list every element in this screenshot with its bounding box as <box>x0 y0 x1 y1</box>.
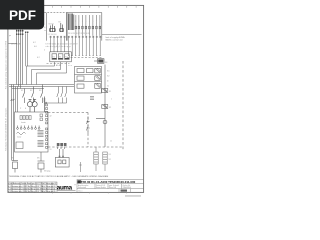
svg-text:th1: th1 <box>107 70 110 73</box>
svg-text:pe: pe <box>9 35 11 37</box>
supply limit line <box>102 34 142 36</box>
wire labels L1 L2 L3 N and 6-20 <box>11 42 77 59</box>
svg-text:8: 8 <box>99 21 100 23</box>
svg-text:4.1: 4.1 <box>44 27 47 29</box>
mechanical linkage line <box>45 102 67 104</box>
svg-text:B1: B1 <box>59 22 61 24</box>
svg-text:S1: S1 <box>21 90 23 92</box>
control unit enclosure A1 <box>15 112 48 152</box>
resistor R2 <box>17 133 26 135</box>
frame grid ticks top <box>52 5 136 7</box>
thermal fuse F1 <box>102 89 108 93</box>
wire to motor M1 <box>104 65 106 148</box>
svg-text:6: 6 <box>92 21 93 23</box>
svg-text:Schaltplan Stellantrieb AUMA S: Schaltplan Stellantrieb AUMA SA 07.1 Umd… <box>4 107 7 151</box>
svg-text:a Ind Änderung Datum Name ger: a Ind Änderung Datum Name ger 4.02 TPA b… <box>8 182 56 185</box>
svg-text:4.6: 4.6 <box>34 46 37 48</box>
PDF badge <box>0 0 44 30</box>
left margin vertical text <box>4 40 7 151</box>
blinker transmitter P1 P2 <box>27 97 45 113</box>
svg-text:23 24 25 26 27 28 29 30 31: 23 24 25 26 27 28 29 30 31 <box>68 33 90 35</box>
strip top line <box>44 12 66 14</box>
wire rows to motor circuit <box>9 85 74 89</box>
terminal group box A (switch compartment) <box>47 13 67 41</box>
pin numbers 1-8 <box>75 21 100 23</box>
terminals 1-5 of group A <box>50 36 66 38</box>
wire PE tap to frame <box>8 43 17 45</box>
wires K1/K2/K3 to bus <box>27 62 67 85</box>
svg-text:7: 7 <box>96 21 97 23</box>
pin contact boxes of group B <box>75 26 101 29</box>
indicator pin cluster V1 <box>69 14 74 31</box>
thermoswitch contacts F3 F4 <box>86 117 89 134</box>
svg-text:42: 42 <box>50 116 52 118</box>
relay block K1 K2 K3 <box>50 52 72 62</box>
connector XK <box>98 59 105 64</box>
svg-text:e1: e1 <box>110 141 112 143</box>
svg-text:F2: F2 <box>109 107 111 109</box>
svg-text:K2: K2 <box>59 57 61 59</box>
svg-text:K1: K1 <box>53 57 55 59</box>
drop wires group B <box>68 38 101 56</box>
title fields <box>77 180 144 193</box>
limit switches S1 S2 and transmitter B1 <box>50 23 64 32</box>
frame grid ticks bottom <box>52 192 126 193</box>
svg-text:4.2: 4.2 <box>37 57 40 59</box>
wire pair from X0 <box>26 33 28 66</box>
heater element R1 cells <box>20 114 43 121</box>
svg-text:For actuator wiring diagram se: For actuator wiring diagram see separate… <box>4 40 7 89</box>
terminal column X5 <box>46 104 48 148</box>
svg-text:Zeichn.-Nr.: Zeichn.-Nr. <box>123 185 131 187</box>
svg-text:M1: M1 <box>37 158 40 160</box>
revision table <box>8 182 57 192</box>
capacitor C1 box <box>16 142 23 149</box>
svg-text:1 2 3 4 5 6: 1 2 3 4 5 6 <box>48 34 57 36</box>
auma logo <box>57 184 77 192</box>
svg-text:TPA 00 R1-C1-A000 TPA00R100-01: TPA 00 R1-C1-A000 TPA00R100-011-000 <box>81 180 136 184</box>
dark blob cell <box>77 180 80 183</box>
actuator enclosure boundary (dashed) <box>48 61 123 150</box>
svg-text:4.2: 4.2 <box>33 42 36 44</box>
node with junction circle <box>96 119 107 124</box>
svg-text:2: 2 <box>78 21 79 23</box>
svg-text:th2: th2 <box>107 75 110 78</box>
wire to connector XK <box>94 60 98 62</box>
svg-text:MATIC control unit: MATIC control unit <box>106 38 123 41</box>
svg-text:2: 2 <box>44 50 45 52</box>
scan artifact bar bottom right <box>125 195 141 197</box>
svg-text:4: 4 <box>85 21 86 23</box>
dashed separation line <box>67 56 102 58</box>
plug/socket connector XB <box>55 149 69 167</box>
wire bus (lower) <box>11 85 18 161</box>
terminal numbers 23-31 <box>68 33 90 35</box>
ground PE and motor connection M1 <box>12 152 45 173</box>
svg-text:51: 51 <box>50 149 52 151</box>
svg-text:TERMINAL PLAN FOR ACTUATOR CON: TERMINAL PLAN FOR ACTUATOR CONTROLS AUMA… <box>9 175 109 178</box>
svg-text:F1: F1 <box>109 91 111 93</box>
terminals 6-15 of group B <box>68 36 101 38</box>
terminal strips X1 X2 <box>94 147 107 171</box>
terminal stacks X3 X4 <box>38 131 44 147</box>
svg-text:PDF: PDF <box>9 8 36 23</box>
signal pins of group B <box>76 15 100 36</box>
svg-text:A1 A2: A1 A2 <box>56 64 61 67</box>
svg-text:Name Mueller: Name Mueller <box>96 187 106 189</box>
svg-text:S3: S3 <box>39 90 41 92</box>
mains terminal block X0 <box>16 30 28 35</box>
svg-text:b 1 Revision ges. 01.02 Mul Nm: b 1 Revision ges. 01.02 Mul Nm g 4.02 TP… <box>8 185 55 188</box>
sheet border frame <box>8 5 144 192</box>
svg-text:a b c d e f g h i j k l m n o: a b c d e f g h i j k l m n o p q r <box>46 45 72 48</box>
svg-text:d 3 Revision ges. 05.06 Mul Nm: d 3 Revision ges. 05.06 Mul Nm g 4.02 TP… <box>8 190 55 193</box>
switch contacts S4 S5 S6 <box>57 87 67 104</box>
svg-text:Norm DIN: Norm DIN <box>109 187 117 189</box>
svg-text:XB plug: XB plug <box>44 171 50 173</box>
note: limit of supply <box>106 36 126 42</box>
svg-text:X1: X1 <box>109 154 111 156</box>
plug contacts cluster <box>57 143 67 149</box>
wire bus L1 L2 L3 N (upper) <box>17 30 23 89</box>
svg-text:motor: motor <box>17 136 22 139</box>
svg-text:X2: X2 <box>109 159 111 161</box>
svg-text:S1 S2: S1 S2 <box>49 24 54 26</box>
field texts <box>78 184 131 193</box>
motor terminal box ladder <box>75 67 102 94</box>
terminal dots row of A1 <box>17 126 40 130</box>
svg-text:he: he <box>107 86 109 88</box>
svg-text:Ers. f.: Ers. f. <box>79 190 84 192</box>
svg-text:1: 1 <box>75 21 76 23</box>
svg-text:K3: K3 <box>65 57 67 59</box>
terminal group box B (signal compartment) <box>67 13 102 41</box>
svg-text:5: 5 <box>89 21 90 23</box>
svg-text:3: 3 <box>82 21 83 23</box>
svg-text:c 2 Revision ges. 03.04 Mul Nm: c 2 Revision ges. 03.04 Mul Nm g 4.02 TP… <box>8 187 55 190</box>
svg-text:S2: S2 <box>30 90 32 92</box>
svg-text:heater: heater <box>21 121 26 124</box>
svg-text:1: 1 <box>111 99 112 101</box>
thermal fuse F2 <box>102 105 108 109</box>
wires from group A terminals <box>51 38 65 52</box>
torque switches S1 S2 S3 <box>23 85 43 104</box>
